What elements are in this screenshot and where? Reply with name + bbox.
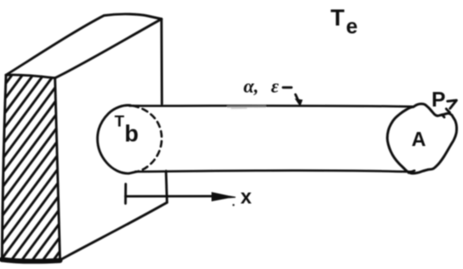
svg-text:T: T bbox=[115, 114, 125, 131]
rod top line bbox=[130, 105, 414, 108]
wall hatched face top edge bbox=[6, 75, 55, 78]
rod bottom line bbox=[136, 171, 413, 172]
fin base blob dashed arc (hidden) bbox=[133, 106, 162, 172]
wall hatched face bottom edge bbox=[2, 260, 61, 262]
alpha-epsilon leader dashes bbox=[283, 88, 298, 100]
wall top front edge bbox=[55, 19, 162, 78]
fin end blob bbox=[387, 104, 456, 174]
svg-text:α,: α, bbox=[244, 77, 259, 98]
wall front right edge lower bbox=[166, 171, 167, 203]
smudge on rod top line bbox=[227, 105, 266, 108]
alpha-epsilon leader arrowhead bbox=[296, 99, 302, 105]
svg-text:b: b bbox=[125, 121, 139, 147]
svg-text:P: P bbox=[432, 89, 446, 112]
wall top back edge bbox=[6, 14, 162, 75]
svg-text:T: T bbox=[331, 5, 345, 31]
x axis tick bbox=[124, 184, 127, 204]
svg-text:ε: ε bbox=[271, 77, 279, 98]
svg-text:A: A bbox=[412, 129, 426, 151]
rod bottom line end hook bbox=[409, 171, 415, 173]
P leader arrowhead bbox=[448, 100, 457, 108]
x axis arrowhead bbox=[212, 193, 236, 201]
fin base blob solid arc bbox=[97, 105, 136, 173]
wall front bottom edge bbox=[61, 203, 167, 260]
P leader dashes bbox=[443, 109, 450, 117]
wall hatched face left edge bbox=[2, 75, 6, 260]
wall front right edge upper bbox=[160, 19, 163, 104]
hatching bbox=[0, 69, 206, 266]
svg-text:x: x bbox=[241, 187, 252, 209]
wall hatched face right edge bbox=[55, 78, 60, 260]
x axis line bbox=[126, 195, 215, 198]
speck near x label bbox=[232, 204, 234, 206]
svg-text:e: e bbox=[346, 16, 358, 39]
